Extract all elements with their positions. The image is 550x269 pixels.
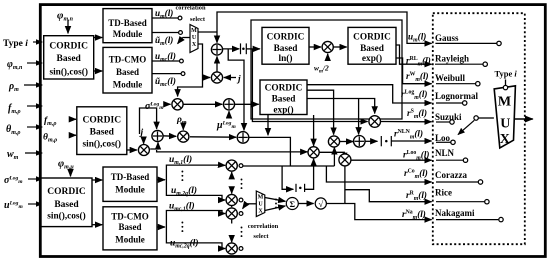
svg-text:Gauss: Gauss <box>435 33 459 43</box>
svg-text:NLN: NLN <box>435 148 455 158</box>
svg-text:Module: Module <box>113 80 143 90</box>
svg-text:sin(),cos(): sin(),cos() <box>47 211 85 222</box>
svg-text:correlation: correlation <box>175 5 205 12</box>
svg-text:U: U <box>192 35 197 41</box>
svg-text:TD-CMO: TD-CMO <box>111 211 149 221</box>
svg-text:M: M <box>191 28 197 34</box>
svg-text:Type i: Type i <box>495 69 518 79</box>
svg-text:Module: Module <box>115 184 145 194</box>
svg-text:select: select <box>190 16 206 23</box>
svg-text:Based: Based <box>54 200 79 210</box>
svg-text:U: U <box>258 202 263 208</box>
svg-text:Type i: Type i <box>3 39 28 49</box>
svg-text:sin(),cos(): sin(),cos() <box>49 67 87 78</box>
svg-text:Loo: Loo <box>435 133 451 143</box>
svg-text:Rayleigh: Rayleigh <box>435 53 469 63</box>
svg-text:CORDIC: CORDIC <box>267 33 305 43</box>
svg-text:ln(): ln() <box>279 53 293 64</box>
svg-text:Based: Based <box>90 128 115 138</box>
svg-text:X: X <box>258 209 263 215</box>
svg-text:exp(): exp() <box>362 53 382 64</box>
svg-text:X: X <box>500 132 510 147</box>
svg-text:Rice: Rice <box>435 187 452 197</box>
svg-text:exp(): exp() <box>273 105 293 116</box>
svg-text:CORDIC: CORDIC <box>353 33 391 43</box>
svg-text:TD-Based: TD-Based <box>108 18 147 28</box>
svg-text:CORDIC: CORDIC <box>49 42 88 52</box>
svg-text:Corazza: Corazza <box>435 170 467 180</box>
svg-text:Based: Based <box>116 67 139 77</box>
svg-text:TD-CMO: TD-CMO <box>109 54 147 64</box>
svg-text:Based: Based <box>118 222 141 232</box>
svg-text:Weibull: Weibull <box>435 73 466 83</box>
svg-text:√: √ <box>318 199 323 209</box>
svg-text:Based: Based <box>272 95 297 105</box>
svg-text:CORDIC: CORDIC <box>83 116 122 126</box>
svg-text:Based: Based <box>360 44 385 54</box>
svg-text:correlation: correlation <box>248 223 279 230</box>
svg-text:Module: Module <box>115 235 145 245</box>
svg-text:sin(),cos(): sin(),cos() <box>83 139 121 150</box>
svg-text:Nakagami: Nakagami <box>435 208 475 218</box>
svg-text:Lognormal: Lognormal <box>435 91 479 101</box>
svg-text:select: select <box>253 233 269 240</box>
svg-text:M: M <box>498 95 511 110</box>
svg-text:CORDIC: CORDIC <box>47 187 86 197</box>
svg-text:Based: Based <box>274 44 299 54</box>
svg-text:U: U <box>500 117 510 132</box>
svg-text:Σ: Σ <box>290 199 296 209</box>
svg-text:TD-Based: TD-Based <box>111 172 150 182</box>
svg-text:X: X <box>192 42 197 48</box>
svg-text:Based: Based <box>57 54 82 64</box>
svg-text:Module: Module <box>113 29 143 39</box>
svg-text:M: M <box>258 195 264 201</box>
svg-text:Suzuki: Suzuki <box>435 112 462 122</box>
svg-text:CORDIC: CORDIC <box>265 84 303 94</box>
